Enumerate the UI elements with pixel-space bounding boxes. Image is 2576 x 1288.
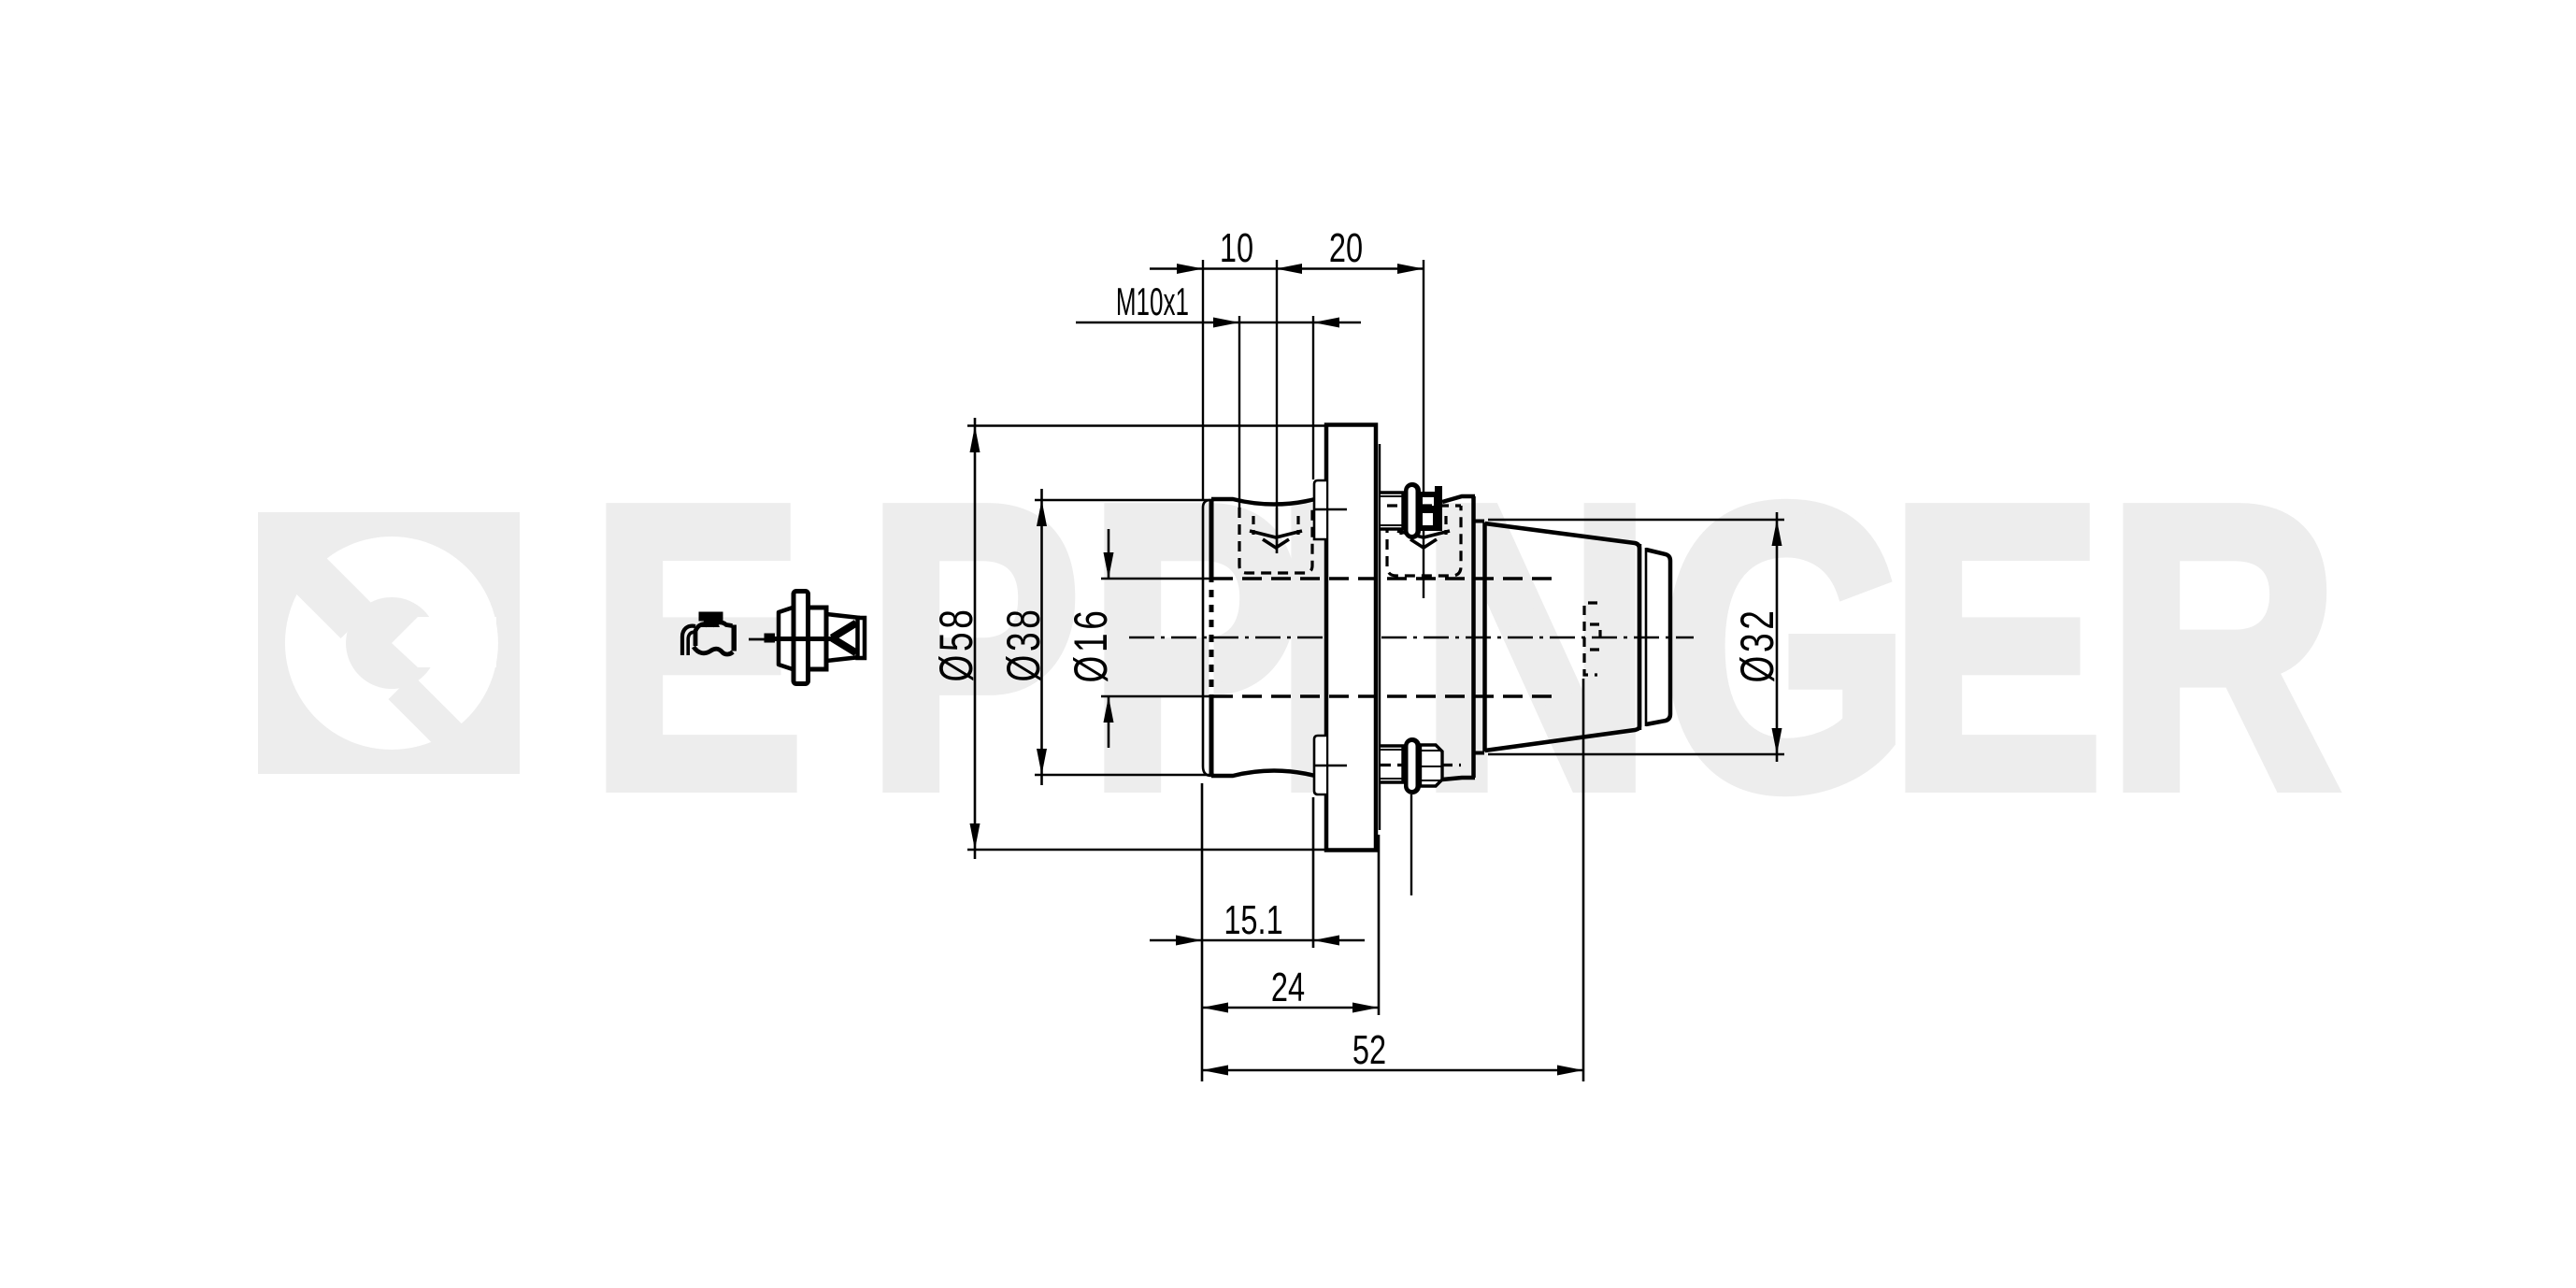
extension lines top: [1203, 260, 1424, 598]
watermark text EPPINGER: [590, 422, 2339, 871]
svg-text:52: 52: [1352, 1027, 1386, 1073]
centerline: [1129, 637, 1694, 638]
dimension 10/20 line: [1076, 269, 1424, 323]
svg-text:R: R: [2107, 422, 2339, 871]
body left section: [1203, 499, 1326, 776]
arrowhead M10x1 right: [1313, 318, 1339, 328]
dimension line D16: [1101, 529, 1211, 748]
arrowhead D58 top: [970, 426, 980, 453]
svg-text:10: 10: [1220, 225, 1253, 271]
flange recess line top: [1313, 508, 1347, 511]
dimension 24: [1202, 835, 1379, 1015]
clamp screw top: [1381, 482, 1442, 539]
bore hidden lines D16: [1213, 579, 1559, 696]
arrowhead 52 right: [1557, 1066, 1583, 1076]
dimension line D32: [1488, 512, 1784, 762]
arrowhead D38 bottom: [1037, 749, 1047, 775]
svg-text:G: G: [1660, 422, 1911, 871]
coolant icon: collet part with flow arrow: [749, 592, 865, 684]
flange: [1326, 425, 1380, 851]
arrowhead M10x1 left: [1213, 318, 1239, 328]
arrowhead D32 bottom: [1772, 728, 1782, 754]
dimension line D58: [967, 418, 1326, 859]
svg-text:24: 24: [1271, 965, 1305, 1010]
arrowhead D32 top: [1772, 520, 1782, 546]
cone: [1485, 522, 1671, 751]
dimension line D38: [1035, 489, 1214, 785]
arrowhead at thread axis: [1276, 264, 1302, 274]
arrowhead 52 left: [1202, 1066, 1228, 1076]
flange recess line bottom: [1313, 765, 1347, 767]
svg-text:Ø38: Ø38: [998, 606, 1051, 681]
arrowhead at screw axis: [1397, 264, 1424, 274]
body right section: [1380, 495, 1484, 780]
hidden relief line bottom: [1381, 764, 1461, 766]
arrowhead at body left edge: [1177, 264, 1203, 274]
dimension 52: [1202, 679, 1583, 1081]
arrowhead 24 right: [1352, 1003, 1379, 1013]
watermark logo square: [258, 512, 520, 774]
coolant icon: faucet: [682, 612, 737, 656]
svg-text:Ø32: Ø32: [1732, 607, 1784, 682]
svg-text:Ø16: Ø16: [1066, 607, 1118, 682]
svg-text:20: 20: [1329, 225, 1363, 271]
arrowhead 15.1 left: [1176, 936, 1202, 946]
arrowhead D16 top: [1104, 552, 1114, 579]
hidden coolant clip: [1584, 603, 1600, 675]
arrowhead 15.1 right: [1313, 936, 1339, 946]
svg-text:P: P: [1088, 422, 1302, 871]
dimension 15.1: [1150, 783, 1365, 1081]
arrowhead D58 bottom: [970, 823, 980, 850]
arrowhead D16 bottom: [1104, 696, 1114, 723]
arrowhead D38 top: [1037, 500, 1047, 526]
arrowhead 24 left: [1202, 1003, 1228, 1013]
clamp screw bottom: [1381, 737, 1442, 895]
white thread dashes on left face: [1209, 582, 1214, 694]
tab front of flange top: [1314, 480, 1326, 539]
svg-text:E: E: [1889, 422, 2103, 871]
svg-text:E: E: [590, 422, 804, 871]
svg-text:15.1: 15.1: [1224, 897, 1282, 943]
svg-text:N: N: [1420, 422, 1652, 871]
svg-text:M10x1: M10x1: [1116, 280, 1189, 324]
svg-text:Ø58: Ø58: [931, 606, 983, 681]
tab front of flange bottom: [1314, 736, 1326, 794]
hidden thread line top: [1387, 504, 1461, 507]
thread hole M10 right (hidden): [1387, 506, 1461, 576]
centerline vertical hole axis: [1276, 508, 1278, 553]
thread hole M10 left (hidden): [1239, 508, 1312, 573]
